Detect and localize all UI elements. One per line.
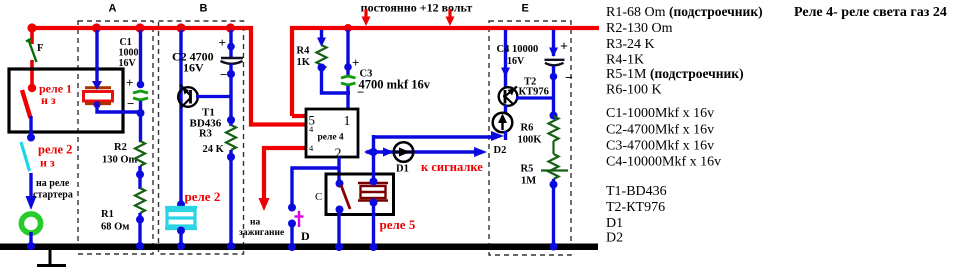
- svg-text:реле 5: реле 5: [380, 217, 416, 232]
- capacitor C2 plates: [221, 57, 243, 59]
- node coil K2 bottom: [177, 227, 185, 235]
- wire C3 top: [346, 30, 349, 75]
- svg-text:КТ976: КТ976: [519, 87, 549, 98]
- wire D2 bottom stub: [504, 131, 507, 140]
- svg-text:1K: 1K: [297, 57, 311, 68]
- svg-text:A: A: [109, 2, 117, 14]
- svg-text:R1-68 Om (подстроечник): R1-68 Om (подстроечник): [606, 4, 763, 20]
- svg-text:T1-BD436: T1-BD436: [606, 184, 667, 199]
- wire T2 to D2: [504, 105, 507, 113]
- arrow к сигналке: [474, 147, 487, 157]
- capacitor C4 plates: [545, 59, 565, 61]
- svg-text:зажигание: зажигание: [239, 228, 284, 238]
- svg-text:+: +: [126, 75, 133, 90]
- node R5 ground: [550, 243, 558, 251]
- parts list transistors: [606, 184, 667, 246]
- arrow T2 column: [501, 68, 510, 78]
- relay 5 box: [326, 174, 394, 215]
- wire +12V bus right segment: [292, 28, 599, 116]
- resistor R1: [135, 188, 145, 213]
- svg-text:стартера: стартера: [33, 190, 73, 201]
- node ground relay2: [27, 242, 35, 250]
- arrow to D2: [491, 131, 504, 141]
- svg-text:постоянно +12 вольт: постоянно +12 вольт: [361, 1, 473, 15]
- node bus J4: [176, 23, 185, 32]
- wire pin5 red: [292, 114, 307, 118]
- svg-text:R5: R5: [521, 164, 534, 175]
- wire C3 to pin1: [346, 86, 349, 110]
- switch relay2 blade cyan: [21, 142, 30, 171]
- dashed section box E: [489, 21, 571, 255]
- switch D magenta: [295, 211, 304, 227]
- svg-text:Реле 4- реле света газ 24: Реле 4- реле света газ 24: [794, 5, 947, 20]
- node C1 bottom: [137, 109, 145, 117]
- node C1 plus: [137, 81, 145, 89]
- svg-text:−: −: [127, 96, 134, 111]
- svg-text:F: F: [37, 43, 43, 54]
- svg-text:100K: 100K: [518, 135, 543, 146]
- wire C2 bottom: [229, 64, 232, 126]
- wire C4 bottom: [552, 66, 555, 117]
- svg-text:R1: R1: [101, 209, 114, 220]
- diode D2: [493, 113, 513, 133]
- svg-text:C4 10000: C4 10000: [497, 44, 539, 55]
- svg-text:R2-130 Om: R2-130 Om: [606, 21, 673, 36]
- svg-text:−: −: [357, 85, 364, 100]
- node relay2 top: [27, 134, 35, 142]
- parts list column capacitors: [606, 106, 721, 169]
- wire R1 to ground: [138, 213, 141, 244]
- svg-text:−: −: [220, 67, 227, 82]
- wire red F to relay1 switch: [30, 60, 34, 88]
- svg-text:16V: 16V: [119, 58, 137, 69]
- svg-text:T2-КТ976: T2-КТ976: [606, 200, 665, 215]
- svg-text:R2: R2: [114, 142, 127, 153]
- wire R4 to C3 node: [322, 65, 351, 93]
- svg-text:D2: D2: [494, 145, 507, 156]
- svg-text:на: на: [250, 218, 260, 228]
- svg-text:R5-1M (подстроечник): R5-1M (подстроечник): [606, 66, 744, 82]
- node switch C ground: [335, 243, 343, 251]
- node coil K1 bottom: [93, 101, 100, 108]
- arrow 12V right: [446, 9, 455, 26]
- svg-text:16V: 16V: [183, 61, 204, 75]
- svg-text:D1: D1: [606, 216, 623, 231]
- indicator ring (lamp): [21, 214, 40, 233]
- wire T1 column: [179, 30, 182, 205]
- svg-text:R6: R6: [521, 123, 534, 134]
- wire R5 to ground: [552, 179, 555, 245]
- wire pin4-lower to ignition: [264, 148, 307, 202]
- node switch D top: [288, 204, 296, 212]
- transistor T1: [178, 85, 198, 109]
- svg-text:к сигналке: к сигналке: [421, 160, 483, 174]
- node coil K5 bottom: [370, 199, 378, 207]
- wire C2 top: [229, 30, 232, 57]
- resistor R2: [135, 141, 145, 166]
- ground bus: [0, 244, 598, 251]
- resistor R6: [549, 116, 559, 141]
- svg-text:н з: н з: [40, 156, 55, 170]
- relay coil K5: [358, 183, 388, 201]
- wire red drop to F: [30, 28, 34, 44]
- node coil K2 ground: [177, 242, 185, 250]
- node R6 top: [550, 112, 558, 120]
- wire to D2 upper: [374, 135, 495, 138]
- svg-text:н з: н з: [41, 93, 56, 107]
- wire R3 to ground: [229, 150, 232, 244]
- wire coil K1 bottom to C1 node: [97, 104, 141, 112]
- wire switch C to ground: [337, 212, 340, 244]
- svg-text:C1: C1: [120, 37, 132, 48]
- node coil K5 wire junction: [370, 148, 378, 156]
- svg-text:D: D: [301, 229, 310, 243]
- wire to starter relay with arrow: [29, 173, 32, 199]
- resistor R3: [226, 125, 236, 150]
- node bus J6: [344, 24, 352, 32]
- arrow coil K1 top: [92, 81, 102, 90]
- wire coil K1 top: [95, 30, 98, 84]
- arrow left on D1 wire: [364, 147, 375, 157]
- wire relay1 switch down: [29, 116, 32, 140]
- svg-text:реле 2: реле 2: [185, 189, 221, 204]
- wire coil K5 top up: [372, 135, 375, 183]
- svg-text:реле 4: реле 4: [318, 132, 344, 142]
- svg-text:E: E: [522, 2, 529, 14]
- svg-text:D2: D2: [606, 231, 623, 246]
- node R2-R1: [136, 171, 144, 179]
- arrow to ignition: [259, 198, 270, 211]
- wire R6-R5: [552, 141, 554, 154]
- node coil K5 top: [370, 178, 378, 186]
- node R4 bottom: [318, 64, 326, 72]
- wire C1 bottom: [139, 101, 142, 142]
- svg-text:C: C: [315, 191, 322, 203]
- relay coil K2 cyan: [165, 208, 197, 229]
- wire lamp to ground: [29, 232, 32, 244]
- svg-text:R4-1K: R4-1K: [606, 52, 644, 67]
- wire switch D to ground: [290, 223, 293, 244]
- wire +12V bus left segment: [30, 28, 307, 125]
- wire pin2 down: [337, 157, 340, 184]
- svg-text:R3: R3: [199, 129, 212, 140]
- svg-text:130 Om: 130 Om: [102, 155, 138, 166]
- node C2 bottom: [227, 70, 235, 78]
- node coil K5 ground: [370, 243, 378, 251]
- relay 1 box: [9, 69, 123, 132]
- wire pin2 branch to switch D: [292, 168, 339, 209]
- capacitor C3 plates: [341, 76, 356, 85]
- svg-text:1: 1: [344, 114, 351, 129]
- svg-text:1M: 1M: [521, 176, 536, 187]
- wire R4 top with arrow: [320, 30, 323, 40]
- svg-text:на реле: на реле: [36, 178, 70, 189]
- node C4 bottom: [550, 73, 558, 81]
- node bus J5: [226, 23, 235, 32]
- node bus J3: [135, 23, 144, 32]
- node coil K2 top: [177, 201, 185, 209]
- svg-text:D1: D1: [396, 164, 409, 175]
- switch C in relay5: [336, 180, 344, 188]
- transistor T2: [499, 87, 518, 106]
- node R1 ground: [136, 242, 144, 250]
- node switch D ground: [288, 243, 296, 251]
- arrow mid on D1 wire: [383, 148, 394, 157]
- dashed section box A: [78, 21, 153, 254]
- svg-text:C3-4700Mkf x 16v: C3-4700Mkf x 16v: [606, 138, 714, 153]
- resistor R5 trimmer: [549, 154, 559, 179]
- capacitor C1 plates: [133, 91, 148, 100]
- svg-text:+: +: [352, 55, 359, 70]
- wire coil K2 ground: [179, 230, 182, 244]
- svg-text:реле 2: реле 2: [38, 143, 72, 157]
- svg-text:+: +: [560, 40, 568, 55]
- diode D1: [394, 142, 414, 162]
- svg-text:−: −: [565, 71, 573, 86]
- node switch D bottom: [288, 220, 296, 228]
- node C2 plus: [227, 43, 235, 51]
- node bus J2: [92, 23, 101, 32]
- ground: [37, 249, 66, 266]
- resistor R4: [317, 45, 327, 68]
- svg-text:24 K: 24 K: [203, 144, 225, 155]
- node R1 bottom: [136, 216, 144, 224]
- wire C1 top: [139, 30, 142, 88]
- svg-text:C1-1000Mkf x 16v: C1-1000Mkf x 16v: [606, 106, 714, 121]
- svg-text:C4-10000Mkf x 16v: C4-10000Mkf x 16v: [606, 154, 721, 169]
- node C3 top: [344, 63, 352, 71]
- wire T1 base: [196, 95, 232, 98]
- relay 4 box: [306, 109, 358, 157]
- arrow 12V left: [362, 9, 371, 26]
- svg-text:+: +: [219, 35, 226, 50]
- svg-text:R3-24 K: R3-24 K: [606, 37, 655, 52]
- switch F blade: [26, 39, 37, 63]
- svg-text:R6-100 K: R6-100 K: [606, 83, 662, 98]
- wire T2 base: [516, 96, 554, 99]
- wire C4 top: [552, 30, 555, 56]
- node R3 top: [227, 116, 235, 124]
- node R3 ground: [227, 242, 235, 250]
- svg-text:C2-4700Mkf x 16v: C2-4700Mkf x 16v: [606, 123, 714, 138]
- wire D1 lower: [366, 150, 478, 153]
- node R3 bottom: [227, 153, 235, 161]
- svg-text:R4: R4: [297, 46, 311, 57]
- svg-text:4700 mkf 16v: 4700 mkf 16v: [359, 78, 431, 92]
- switch relay1 blade: [28, 84, 36, 92]
- svg-text:68 Ом: 68 Ом: [101, 222, 129, 233]
- wire T2 column top: [504, 30, 507, 87]
- trimmer tap R5: [541, 169, 568, 171]
- svg-text:B: B: [200, 2, 208, 14]
- relay coil K1: [84, 88, 113, 104]
- wire coil K5 to ground: [372, 202, 375, 244]
- node R5 bottom: [550, 181, 558, 189]
- node bus J1: [27, 23, 36, 32]
- svg-text:16V: 16V: [507, 56, 525, 67]
- arrow C4: [549, 48, 558, 58]
- wire R2-R1: [138, 166, 141, 189]
- dashed section box B: [159, 21, 244, 254]
- parts list column 1: [606, 4, 763, 98]
